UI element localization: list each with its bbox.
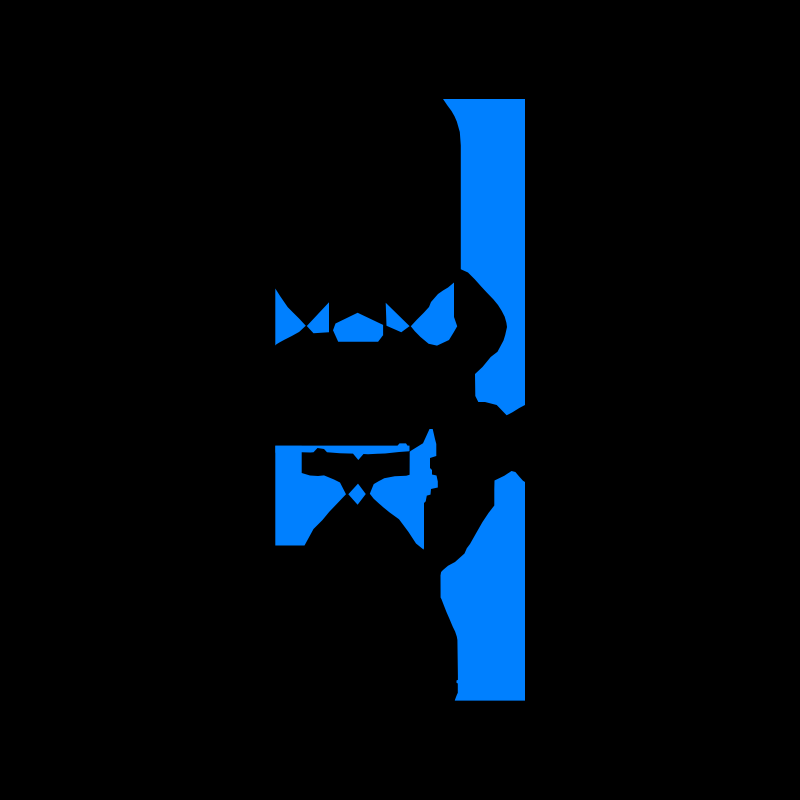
X center diamond	[348, 484, 366, 505]
zigzag piece: middle triangle	[307, 302, 329, 333]
zigzag piece: pentagon	[333, 313, 383, 342]
zigzag piece: flag	[386, 303, 410, 333]
zigzag piece: left blob	[275, 289, 306, 346]
blue wedge (diagonal flow below panel corner)	[411, 283, 457, 346]
central mass with column and descender	[370, 429, 438, 550]
blue band (right vertical panel)	[443, 99, 525, 415]
left patch with X left wedge	[275, 446, 346, 546]
bottom swoosh	[441, 471, 526, 701]
horizontal strip	[275, 443, 409, 460]
